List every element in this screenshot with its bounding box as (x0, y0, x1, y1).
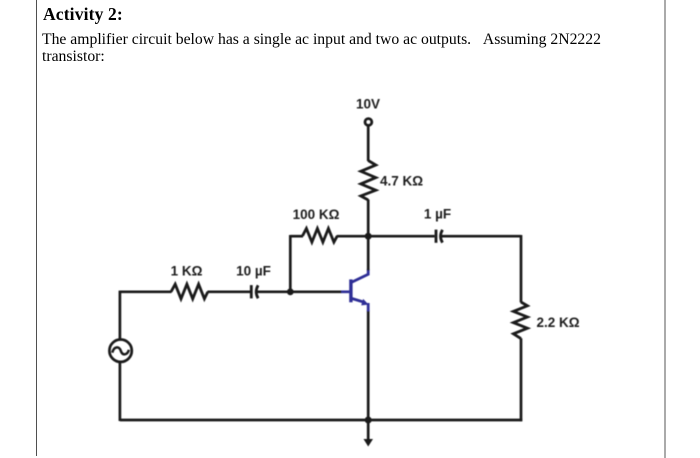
svg-text:1 µF: 1 µF (424, 206, 451, 221)
svg-text:10 µF: 10 µF (236, 263, 271, 278)
svg-text:1 KΩ: 1 KΩ (171, 263, 203, 278)
svg-text:100 KΩ: 100 KΩ (293, 207, 340, 222)
svg-text:2.2 KΩ: 2.2 KΩ (537, 315, 580, 330)
svg-text:4.7 KΩ: 4.7 KΩ (380, 173, 423, 188)
svg-text:10V: 10V (356, 97, 380, 112)
